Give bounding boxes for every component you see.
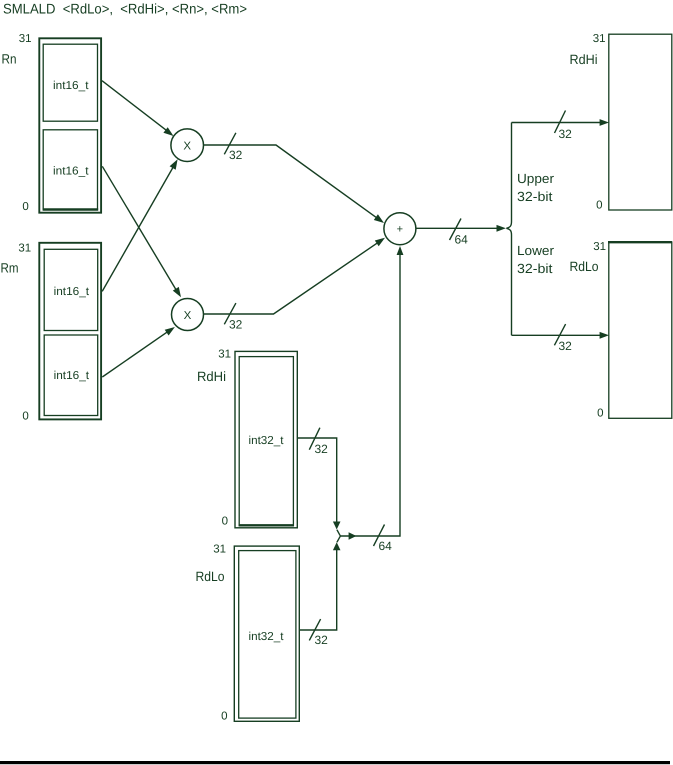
svg-text:0: 0 [22,201,28,213]
svg-text:64: 64 [455,233,469,247]
wire source RdLo up to merge point [299,536,340,630]
svg-text:int16_t: int16_t [54,286,90,298]
svg-text:31: 31 [218,349,231,361]
bus width slash 32 lower [554,324,572,353]
svg-text:RdHi: RdHi [197,369,226,384]
wire merge point to adder bottom [340,246,403,540]
svg-text:32: 32 [315,633,329,647]
adder circle [384,213,416,245]
bus width slash 32 on X1 output [224,133,242,162]
svg-text:Rm: Rm [1,261,19,276]
register Rn high half int16_t box [43,44,97,121]
svg-text:SMLALD <RdLo>, <RdHi>, <Rn>,: SMLALD <RdLo>, <RdHi>, <Rn>, <Rm> [3,1,247,17]
svg-text:Rn: Rn [2,52,17,67]
register Rm low half int16_t box [44,335,97,416]
svg-text:31: 31 [19,33,32,45]
svg-text:0: 0 [597,408,603,420]
svg-text:31: 31 [213,544,226,556]
svg-text:int16_t: int16_t [53,80,89,92]
bus width slash 32 upper [555,111,573,141]
label Lower 32-bit [517,243,555,276]
svg-text:31: 31 [593,33,606,45]
multiplier X2 [172,299,204,331]
bus width slash 64 on merged wire [374,525,393,554]
svg-text:RdLo: RdLo [570,259,599,274]
svg-text:32: 32 [229,148,243,162]
wire lower 32-bit to RdLo [512,332,610,339]
svg-text:RdHi: RdHi [570,52,598,67]
destination register RdHi box [609,34,672,210]
svg-text:RdLo: RdLo [196,569,225,584]
svg-text:32: 32 [559,339,573,353]
bus width slash 32 on source RdHi [309,428,328,456]
svg-text:0: 0 [22,410,28,422]
svg-text:int16_t: int16_t [54,370,90,382]
register Rn low half int16_t box [43,130,99,210]
svg-text:X: X [184,310,192,322]
wire upper 32-bit to RdHi [512,119,610,126]
destination register RdLo box [608,242,672,418]
wire multiplier X2 to adder [204,238,386,314]
wire Rn high to multiplier X1 [102,81,174,136]
source register RdLo outer box [234,546,299,721]
svg-text:32: 32 [315,442,329,456]
bus width slash 64 on adder output [450,219,469,247]
svg-text:Upper: Upper [517,171,555,186]
wire adder output to branch point [416,225,506,232]
svg-text:X: X [183,141,191,153]
label Upper 32-bit [517,171,555,204]
wire Rm high to multiplier X1 [102,159,177,291]
svg-text:0: 0 [596,200,602,212]
svg-text:31: 31 [18,243,31,255]
svg-text:int32_t: int32_t [249,435,285,447]
branch brace splitting 64-bit into upper and lower [506,123,511,336]
svg-text:int16_t: int16_t [53,165,89,177]
svg-text:0: 0 [222,516,228,528]
register Rm high half int16_t box [44,249,97,330]
wire Rn low to multiplier X2 [102,166,181,297]
svg-text:31: 31 [593,241,606,253]
bus width slash 32 on source RdLo [309,619,328,647]
wire Rm low to multiplier X2 [102,327,175,377]
svg-text:32-bit: 32-bit [517,189,553,204]
svg-text:0: 0 [221,711,227,723]
svg-text:32: 32 [229,318,243,332]
source RdHi int32_t inner box [239,357,294,526]
svg-text:32: 32 [559,127,573,141]
svg-text:+: + [397,224,403,236]
register Rn outer box [39,38,101,212]
source RdLo int32_t inner box [239,551,296,719]
wire multiplier X1 to adder [204,145,385,223]
svg-text:int32_t: int32_t [249,631,285,643]
register Rm outer box [39,243,101,420]
multiplier X1 [171,129,204,162]
svg-text:32-bit: 32-bit [517,261,553,276]
svg-text:Lower: Lower [517,243,555,258]
bottom page border bar [0,761,670,764]
svg-text:64: 64 [379,539,393,553]
wire source RdHi down to merge point [297,438,340,536]
source register RdHi outer box [235,351,297,527]
bus width slash 32 on X2 output [224,303,242,332]
